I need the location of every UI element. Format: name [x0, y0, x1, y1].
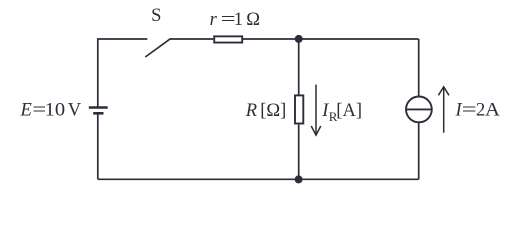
svg-text:IR[A]: IR[A] [321, 101, 362, 124]
current source bar [406, 108, 432, 110]
resistor r body [214, 36, 242, 42]
bottom wire [98, 178, 419, 180]
resistor R body [295, 95, 303, 123]
svg-text:R[Ω]: R[Ω] [245, 101, 287, 121]
arrow I (upward current arrow) [438, 87, 449, 133]
wire middle branch bottom [298, 124, 300, 179]
arrow IR (downward current arrow) [311, 85, 321, 136]
svg-text:E=10V: E=10V [20, 101, 82, 121]
wire top-left horizontal (E top to switch) [98, 39, 148, 107]
battery E long plate [89, 106, 108, 109]
svg-text:r=1Ω: r=1Ω [210, 10, 260, 30]
battery E short plate [93, 112, 103, 115]
wire middle branch top [298, 39, 300, 95]
wire battery bottom to bottom-left corner [97, 114, 99, 179]
wire switch to resistor r [170, 38, 214, 40]
current source U1 circle [406, 97, 432, 123]
wire right side top (corner to current source) [418, 39, 420, 96]
switch S blade [145, 39, 170, 57]
svg-text:I=2A: I=2A [455, 101, 501, 121]
wire right side bottom (current source to corner) [418, 123, 420, 180]
node bottom junction dot [295, 175, 303, 183]
svg-text:S: S [151, 6, 161, 26]
node top junction dot [295, 35, 303, 43]
wire resistor r to top-right corner [243, 38, 419, 40]
